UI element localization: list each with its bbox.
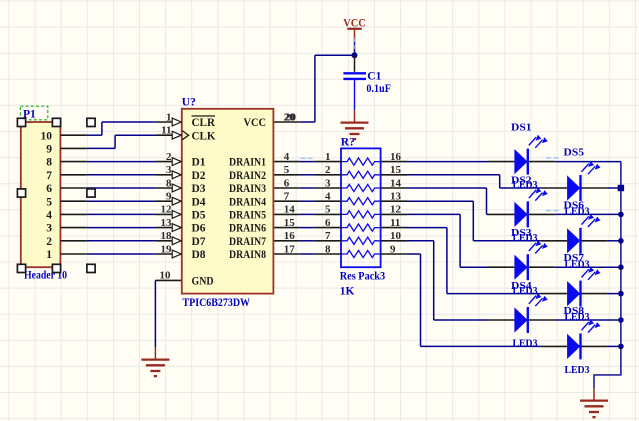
svg-text:2: 2 <box>166 151 172 163</box>
svg-text:9: 9 <box>390 243 396 255</box>
svg-text:2: 2 <box>46 236 52 248</box>
svg-text:DRAIN6: DRAIN6 <box>229 223 266 235</box>
svg-text:6: 6 <box>46 183 52 195</box>
svg-text:D6: D6 <box>192 223 206 235</box>
svg-text:11: 11 <box>161 125 171 137</box>
svg-text:DS6: DS6 <box>564 199 585 211</box>
svg-text:8: 8 <box>166 177 172 189</box>
svg-text:17: 17 <box>284 243 296 255</box>
svg-text:Res Pack3: Res Pack3 <box>340 271 386 283</box>
svg-text:12: 12 <box>390 204 402 216</box>
svg-text:8: 8 <box>325 243 331 255</box>
svg-text:U?: U? <box>182 97 196 109</box>
svg-text:DS1: DS1 <box>511 122 532 134</box>
svg-text:DRAIN8: DRAIN8 <box>229 249 266 261</box>
svg-text:18: 18 <box>161 230 173 242</box>
svg-text:6: 6 <box>284 177 290 189</box>
svg-text:DS5: DS5 <box>564 147 585 159</box>
svg-text:D1: D1 <box>192 157 206 169</box>
svg-text:13: 13 <box>390 191 402 203</box>
svg-text:6: 6 <box>325 217 331 229</box>
svg-text:DS8: DS8 <box>564 305 585 317</box>
svg-text:4: 4 <box>46 210 52 222</box>
svg-text:19: 19 <box>161 243 173 255</box>
svg-text:DRAIN7: DRAIN7 <box>229 236 266 248</box>
svg-text:1: 1 <box>166 111 172 123</box>
svg-text:1: 1 <box>325 151 331 163</box>
svg-text:10: 10 <box>41 130 53 142</box>
svg-text:DS3: DS3 <box>511 227 532 239</box>
svg-text:8: 8 <box>46 157 52 169</box>
svg-text:7: 7 <box>284 191 290 203</box>
svg-text:7: 7 <box>46 170 52 182</box>
svg-text:4: 4 <box>325 191 331 203</box>
svg-text:14: 14 <box>284 204 296 216</box>
svg-text:7: 7 <box>325 230 331 242</box>
svg-text:D5: D5 <box>192 210 206 222</box>
svg-text:DRAIN5: DRAIN5 <box>229 210 266 222</box>
svg-text:10: 10 <box>390 230 402 242</box>
svg-text:DS2: DS2 <box>511 174 532 186</box>
svg-text:3: 3 <box>325 177 331 189</box>
svg-text:DRAIN2: DRAIN2 <box>229 170 266 182</box>
svg-text:LED3: LED3 <box>565 364 590 376</box>
svg-text:15: 15 <box>390 164 402 176</box>
svg-text:GND: GND <box>192 276 214 288</box>
svg-text:1K: 1K <box>340 286 355 298</box>
svg-text:9: 9 <box>166 191 172 203</box>
svg-text:16: 16 <box>284 230 296 242</box>
svg-text:D3: D3 <box>192 183 206 195</box>
svg-text:DS4: DS4 <box>511 280 532 292</box>
svg-text:3: 3 <box>46 223 52 235</box>
svg-text:VCC: VCC <box>244 117 267 129</box>
svg-text:3: 3 <box>166 164 172 176</box>
svg-text:DRAIN1: DRAIN1 <box>229 157 266 169</box>
svg-text:TPIC6B273DW: TPIC6B273DW <box>183 297 251 309</box>
svg-text:D4: D4 <box>192 196 206 208</box>
svg-text:LED3: LED3 <box>513 338 538 350</box>
svg-text:16: 16 <box>390 151 402 163</box>
svg-text:5: 5 <box>325 204 331 216</box>
svg-text:12: 12 <box>161 204 173 216</box>
svg-text:11: 11 <box>390 217 400 229</box>
svg-text:CLK: CLK <box>192 130 216 142</box>
svg-text:5: 5 <box>284 164 290 176</box>
svg-text:D8: D8 <box>192 249 206 261</box>
svg-text:10: 10 <box>160 270 172 282</box>
svg-text:D2: D2 <box>192 170 206 182</box>
svg-text:D7: D7 <box>192 236 206 248</box>
svg-text:C1: C1 <box>367 70 381 82</box>
svg-text:1: 1 <box>46 249 52 261</box>
svg-text:0.1uF: 0.1uF <box>366 83 391 95</box>
svg-text:15: 15 <box>284 217 296 229</box>
svg-text:CLR: CLR <box>192 117 216 129</box>
svg-text:DS7: DS7 <box>564 252 585 264</box>
svg-text:13: 13 <box>161 217 173 229</box>
svg-text:14: 14 <box>390 177 402 189</box>
svg-text:4: 4 <box>284 151 290 163</box>
svg-text:5: 5 <box>46 196 52 208</box>
svg-text:9: 9 <box>46 144 52 156</box>
svg-text:DRAIN3: DRAIN3 <box>229 183 266 195</box>
svg-text:20: 20 <box>285 111 297 123</box>
svg-text:2: 2 <box>325 164 331 176</box>
svg-text:DRAIN4: DRAIN4 <box>229 196 266 208</box>
